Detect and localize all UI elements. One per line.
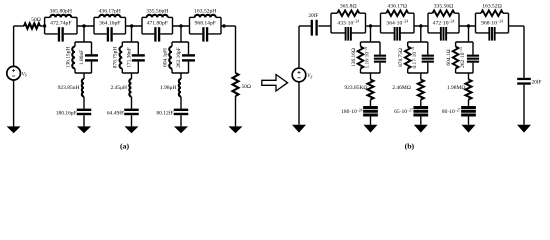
capacitor 433.10-24 plates of tank1b (345, 27, 352, 41)
resistor 604.1Ohm on left edge of branch3b (455, 42, 457, 47)
wire right edge of branchA (91, 42, 93, 73)
resistor 163.52Ohm on top edge of tank4b (476, 12, 482, 14)
capacitor 364.10-24 plates of tank2b (394, 27, 401, 41)
wire VS bottom to ground (b) (298, 82, 300, 125)
ground of VS (a) (7, 126, 21, 133)
inductor 1.98uH (179, 79, 181, 97)
svg-text:0.17·10−21: 0.17·10−21 (411, 46, 418, 68)
resistor 50 Ohm load (a) (233, 73, 239, 96)
wire inductor to capacitor branchA (83, 97, 85, 109)
svg-text:604.1Ω: 604.1Ω (446, 49, 452, 65)
svg-text:80·10−27: 80·10−27 (442, 108, 461, 115)
wire bottom edge of tank1a (45, 33, 77, 35)
ground of load (a) (229, 126, 243, 133)
shunt RC box branch2b outline (408, 42, 428, 73)
svg-text:472.74pF: 472.74pF (50, 21, 71, 27)
wire right edge of branch1b (379, 42, 381, 73)
resistor 50 Ohm source (a) (24, 23, 40, 28)
shunt LC box branchA outline (75, 42, 92, 73)
svg-text:923.85KΩ: 923.85KΩ (344, 85, 367, 91)
wire bottom edge of tank2b (381, 32, 415, 34)
svg-text:968·10−24: 968·10−24 (481, 20, 503, 27)
inductor 365.80pH on top edge of tank1a (45, 16, 51, 18)
svg-text:1.16·10−21: 1.16·10−21 (364, 46, 371, 68)
wire rail to branch2b box (420, 26, 422, 42)
capacitor 65.10-27 (413, 106, 428, 117)
svg-text:1.98MΩ: 1.98MΩ (447, 85, 466, 91)
capacitor 171.36nF plates of branchB (132, 54, 145, 61)
shunt LC box branchC outline (172, 42, 189, 73)
parallel RC tank tank3b outline (428, 13, 459, 33)
inductor 2.45uH (129, 79, 131, 97)
wire VS bottom to ground (a) (13, 80, 15, 126)
svg-text:180·10−24: 180·10−24 (341, 108, 363, 115)
wire down to load (a) (235, 26, 237, 73)
resistor 335.56Ohm on top edge of tank3b (428, 12, 433, 14)
capacitor 968.14pF plates of tank4a (202, 27, 208, 41)
ground of branch2b (414, 125, 428, 133)
node 1 (a) (43, 24, 46, 27)
parallel RC tank tank2b outline (381, 13, 415, 33)
wire rail start (a) (14, 25, 24, 27)
node 1 (b) (369, 24, 372, 27)
inductor 436.17pH on top edge of tank2a (94, 16, 99, 18)
wire right edge of branchB (137, 42, 139, 73)
parallel LC tank tank3a outline (142, 17, 173, 34)
ground of branchC (174, 126, 188, 133)
capacitor 180.16pF (77, 109, 92, 116)
svg-text:50Ω: 50Ω (242, 84, 251, 90)
wire resistor to capacitor branch3b (468, 100, 470, 107)
capacitor 471.80pF plates of tank3a (154, 27, 160, 41)
svg-text:923.85nH: 923.85nH (58, 85, 80, 91)
svg-text:365.80pH: 365.80pH (50, 8, 72, 14)
wire branchB box to inductor (131, 73, 133, 79)
svg-text:436.17Ω: 436.17Ω (387, 4, 407, 10)
wire rail to branchB box (131, 26, 133, 42)
wire bottom edge of tank3a (142, 33, 173, 35)
wire branch3b box to resistor (468, 73, 470, 80)
capacitor 472.74pF plates of tank1a (58, 27, 64, 41)
ground of VS (b) (292, 125, 306, 133)
shunt RC box branch3b outline (456, 42, 473, 73)
svg-text:163.52Ω: 163.52Ω (482, 4, 502, 10)
wire branchC box to inductor (180, 73, 182, 79)
capacitor 20fF input (b) (311, 20, 318, 36)
svg-text:2.45μH: 2.45μH (110, 85, 127, 91)
capacitor 0.17.10-21 plates of branch2b (422, 55, 434, 63)
node 4 (a) (179, 24, 182, 27)
ground of branch1b (364, 125, 378, 133)
parallel LC tank tank4a outline (190, 17, 222, 34)
svg-text:878.75pH: 878.75pH (113, 47, 119, 69)
svg-text:364.16pF: 364.16pF (99, 21, 120, 27)
capacitor 968.10-24 plates of tank4b (488, 27, 495, 41)
wire right edge of branchC (188, 42, 190, 73)
svg-text:335.56Ω: 335.56Ω (434, 4, 454, 10)
wire input cap to tank1b (318, 25, 331, 27)
svg-text:472·10−24: 472·10−24 (433, 20, 455, 27)
inductor 923.85nH (82, 79, 84, 97)
svg-text:262.10pF: 262.10pF (176, 47, 182, 68)
wire tank2b to tank3b (414, 25, 428, 27)
svg-text:VS: VS (307, 73, 312, 79)
inductor 604.1pH on left edge of branchC (171, 42, 173, 47)
wire tank4a to load corner (a) (221, 25, 236, 27)
svg-text:20fF: 20fF (308, 12, 318, 19)
svg-text:50Ω: 50Ω (31, 17, 41, 23)
wire branch2b box to resistor (420, 73, 422, 80)
wire rail to branch1b box (370, 26, 372, 42)
wire resistor to capacitor branch1b (370, 100, 372, 107)
resistor 136.16Ohm on left edge of branch1b (360, 42, 362, 47)
ground of branchA (77, 126, 91, 133)
resistor 878.75Ohm on left edge of branch2b (407, 42, 409, 47)
wire rail start (b) (299, 25, 311, 27)
wire tank1a to tank2a (77, 25, 94, 27)
svg-text:64.49fF: 64.49fF (107, 110, 124, 117)
wire output cap to ground (b) (523, 85, 525, 125)
wire capacitor to ground branch2b (420, 117, 422, 125)
node 5 (a) (222, 24, 225, 27)
wire bottom edge of tank2a (94, 33, 126, 35)
wire rail to branchC box (180, 26, 182, 42)
wire VS top to rail (a) (13, 26, 15, 66)
svg-text:163.52pH: 163.52pH (194, 8, 216, 14)
inductor 163.52pH on top edge of tank4a (190, 16, 195, 18)
node 2 (b) (419, 24, 422, 27)
resistor 365.8Ohm on top edge of tank1b (331, 12, 337, 14)
svg-text:80.12fF: 80.12fF (156, 110, 173, 117)
capacitor 262.10pF plates of branchC (182, 54, 195, 61)
wire branchA box to inductor (83, 73, 85, 79)
node 3 (a) (130, 24, 133, 27)
wire tank2a to tank3a (126, 25, 143, 27)
capacitor 20fF output (b) (517, 78, 531, 85)
wire capacitor to ground branchB (131, 115, 133, 126)
capacitor 80.10-27 (461, 106, 476, 117)
svg-text:136.16Ω: 136.16Ω (351, 48, 357, 67)
wire bottom edge of tank4a (190, 33, 222, 35)
svg-text:471.80pF: 471.80pF (147, 21, 168, 27)
svg-text:968.14pF: 968.14pF (195, 21, 216, 27)
svg-text:262·10−24: 262·10−24 (459, 47, 466, 68)
capacitor 64.49fF (124, 109, 139, 116)
capacitor 472.10-24 plates of tank3b (440, 27, 447, 41)
wire load to ground (a) (235, 96, 237, 126)
wire capacitor to ground branch1b (370, 117, 372, 125)
resistor 2.46MOhm (418, 80, 424, 100)
svg-text:433·10−24: 433·10−24 (337, 20, 359, 27)
svg-text:364·10−24: 364·10−24 (386, 20, 408, 27)
capacitor 364.16pF plates of tank2a (107, 27, 113, 41)
wire branch1b box to resistor (370, 73, 372, 80)
wire capacitor to ground branchC (180, 115, 182, 126)
svg-text:604.1pH: 604.1pH (162, 48, 168, 67)
wire down to output cap (b) (523, 26, 525, 78)
wire tank3b to tank4b (459, 25, 476, 27)
wire VS top to rail (b) (298, 26, 300, 68)
svg-text:VS: VS (22, 71, 27, 77)
voltage source VS (b) (292, 68, 306, 82)
capacitor 1.86nF plates of branchA (85, 54, 98, 61)
shunt LC box branchB outline (122, 42, 138, 73)
svg-text:878.75Ω: 878.75Ω (398, 48, 404, 67)
wire right edge of branch3b (472, 42, 474, 73)
capacitor 180.10-24 (363, 106, 378, 117)
svg-text:436.17pH: 436.17pH (99, 8, 121, 14)
wire resistor to node 1 (a) (40, 25, 45, 27)
ground of branchB (125, 126, 139, 133)
arrow between circuits (262, 75, 288, 92)
wire capacitor to ground branchA (83, 115, 85, 126)
resistor 923.85KOhm (368, 80, 374, 100)
wire right edge of branch2b (427, 42, 429, 73)
node 2 (a) (82, 24, 85, 27)
inductor 335.56pH on top edge of tank3a (142, 16, 147, 18)
wire bottom edge of tank3b (428, 32, 459, 34)
svg-text:(b): (b) (405, 142, 415, 151)
parallel LC tank tank1a outline (45, 17, 77, 34)
capacitor 262.10-24 plates of branch3b (467, 55, 479, 63)
svg-text:136.15pH: 136.15pH (65, 47, 71, 69)
wire inductor to capacitor branchC (180, 97, 182, 109)
inductor 878.75pH on left edge of branchB (121, 42, 123, 47)
wire bottom edge of tank1b (331, 32, 366, 34)
ground of output (b) (517, 125, 531, 133)
svg-text:1.86nF: 1.86nF (79, 50, 85, 65)
wire inductor to capacitor branchB (131, 97, 133, 109)
wire rail to branch3b box (468, 26, 470, 42)
ground of branch3b (462, 125, 476, 133)
capacitor 80.12fF (174, 109, 189, 116)
wire rail to branchA box (83, 26, 85, 42)
svg-text:20fF: 20fF (532, 79, 542, 86)
svg-text:(a): (a) (120, 142, 129, 151)
svg-text:1.98μH: 1.98μH (160, 85, 177, 91)
svg-text:2.46MΩ: 2.46MΩ (392, 85, 411, 91)
inductor 136.15pH on left edge of branchA (74, 42, 76, 47)
parallel LC tank tank2a outline (94, 17, 126, 34)
node 3 (b) (467, 24, 470, 27)
parallel RC tank tank4b outline (476, 13, 509, 33)
wire tank3a to tank4a (173, 25, 190, 27)
wire tank1b to tank2b (366, 25, 381, 27)
resistor 1.98MOhm (466, 80, 472, 100)
wire tank4b to output corner (b) (509, 25, 525, 27)
shunt RC box branch1b outline (361, 42, 381, 73)
wire resistor to capacitor branch2b (420, 100, 422, 107)
wire capacitor to ground branch3b (468, 117, 470, 125)
svg-text:171.36nF: 171.36nF (127, 47, 133, 68)
parallel RC tank tank1b outline (331, 13, 366, 33)
svg-text:365.8Ω: 365.8Ω (340, 4, 357, 10)
voltage source VS (a) (7, 66, 21, 80)
resistor 436.17Ohm on top edge of tank2b (381, 12, 387, 14)
wire bottom edge of tank4b (476, 32, 509, 34)
svg-text:335.56pH: 335.56pH (146, 8, 168, 14)
svg-text:180.16pF: 180.16pF (56, 111, 77, 117)
svg-text:65·10−27: 65·10−27 (394, 108, 413, 115)
capacitor 1.16.10-21 plates of branch1b (374, 55, 386, 63)
